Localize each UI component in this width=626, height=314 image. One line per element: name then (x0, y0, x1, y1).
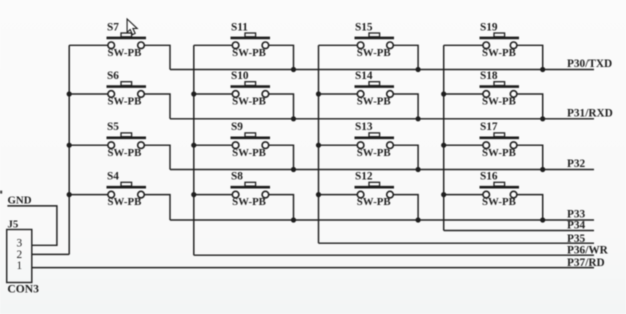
wire S5 right terminal to net line (144, 145, 170, 169)
junction column bus 2 / row 2 (191, 91, 196, 96)
wire S16 left terminal to column bus (444, 194, 483, 196)
svg-text:P37/RD: P37/RD (567, 257, 605, 269)
junction column bus 4 / row 4 (441, 192, 446, 197)
push-button S16 (SW-PB) (480, 171, 520, 209)
svg-text:J5: J5 (8, 218, 19, 230)
push-button S13 (SW-PB) (355, 121, 395, 159)
wire S9 right terminal to net line (269, 145, 294, 169)
junction column bus 2 / row 4 (191, 192, 196, 197)
push-button S15 (SW-PB) (355, 21, 395, 59)
svg-text:P34: P34 (567, 220, 586, 232)
svg-text:SW-PB: SW-PB (482, 147, 516, 159)
junction P32 / column 3 drop (416, 167, 421, 172)
junction column bus 3 / row 2 (316, 91, 321, 96)
push-button S5 (SW-PB) (107, 121, 147, 159)
svg-text:S7: S7 (107, 21, 119, 33)
push-button S14 (SW-PB) (355, 70, 395, 108)
connector J5 body (CON3) (7, 230, 32, 283)
junction column bus 3 / row 3 (316, 143, 321, 148)
wire S13 right terminal to net line (393, 145, 418, 169)
wire S7 left terminal to column bus (69, 44, 108, 46)
svg-text:SW-PB: SW-PB (357, 96, 391, 108)
wire S8 right terminal to net line (269, 195, 294, 220)
push-button S10 (SW-PB) (231, 70, 271, 108)
wire S15 left terminal to column bus (319, 44, 358, 46)
node P34 net line (444, 230, 594, 232)
wire S6 right terminal to net line (144, 94, 170, 119)
svg-text:SW-PB: SW-PB (357, 196, 391, 208)
junction P31/RXD / column 2 drop (291, 116, 296, 121)
junction column bus 4 / row 3 (441, 143, 446, 148)
svg-text:SW-PB: SW-PB (357, 47, 391, 59)
svg-text:P36/WR: P36/WR (567, 245, 609, 257)
push-button S12 (SW-PB) (355, 171, 395, 209)
svg-text:S6: S6 (107, 70, 119, 82)
svg-text:S11: S11 (231, 21, 248, 33)
push-button S7 (SW-PB) (107, 21, 147, 59)
svg-text:SW-PB: SW-PB (108, 47, 142, 59)
svg-text:S5: S5 (107, 121, 119, 133)
junction column bus 4 / row 2 (441, 91, 446, 96)
junction P33 / column 4 drop (540, 217, 545, 222)
svg-text:2: 2 (17, 249, 23, 261)
svg-text:S10: S10 (231, 70, 249, 82)
junction column bus 1 / row 3 (67, 143, 72, 148)
wire S11 left terminal to column bus (194, 44, 233, 46)
clipped mark at left edge (0, 191, 2, 194)
wire S4 left terminal to column bus (69, 194, 108, 196)
svg-text:CON3: CON3 (7, 282, 39, 295)
svg-text:P35: P35 (567, 233, 586, 245)
svg-text:SW-PB: SW-PB (232, 147, 266, 159)
wire S11 right terminal to net line (269, 45, 294, 69)
wire S6 left terminal to column bus (69, 93, 108, 95)
wire S17 right terminal to net line (517, 145, 543, 169)
svg-text:1: 1 (17, 260, 23, 272)
junction P33 / column 3 drop (416, 217, 421, 222)
svg-text:S12: S12 (355, 171, 373, 183)
push-button S9 (SW-PB) (231, 121, 271, 159)
wire S14 left terminal to column bus (319, 93, 358, 95)
node P37/RD net line from J5 pin 1 (32, 267, 594, 269)
svg-text:3: 3 (17, 238, 23, 250)
svg-text:GND: GND (8, 194, 32, 206)
wire GND to J5 pin 3 (7, 206, 57, 245)
junction P32 / column 4 drop (540, 167, 545, 172)
push-button S19 (SW-PB) (480, 21, 520, 59)
junction P31/RXD / column 4 drop (540, 116, 545, 121)
svg-text:S17: S17 (480, 121, 498, 133)
svg-text:S18: S18 (480, 70, 498, 82)
wire S19 left terminal to column bus (444, 44, 483, 46)
svg-text:S9: S9 (231, 121, 243, 133)
wire column bus 4 vertical (443, 45, 445, 230)
node P30/TXD net line (170, 69, 594, 71)
junction P32 / column 2 drop (291, 167, 296, 172)
wire S10 left terminal to column bus (194, 93, 233, 95)
svg-text:SW-PB: SW-PB (482, 47, 516, 59)
push-button S8 (SW-PB) (231, 171, 271, 209)
junction column bus 3 / row 4 (316, 192, 321, 197)
push-button S17 (SW-PB) (480, 121, 520, 159)
wire S16 right terminal to net line (517, 195, 543, 220)
wire S15 right terminal to net line (393, 45, 418, 69)
wire J5 pin 2 to column bus 1 (32, 253, 69, 255)
svg-text:SW-PB: SW-PB (108, 196, 142, 208)
push-button S11 (SW-PB) (231, 21, 271, 59)
svg-text:SW-PB: SW-PB (232, 196, 266, 208)
svg-text:SW-PB: SW-PB (108, 96, 142, 108)
wire S18 right terminal to net line (517, 94, 543, 119)
junction P30/TXD / column 4 drop (540, 67, 545, 72)
junction column bus 1 / row 4 (67, 192, 72, 197)
wire S8 left terminal to column bus (194, 194, 233, 196)
wire S7 right terminal to net line (144, 45, 170, 69)
svg-text:S13: S13 (355, 121, 373, 133)
wire S12 left terminal to column bus (319, 194, 358, 196)
svg-text:S16: S16 (480, 171, 498, 183)
junction P30/TXD / column 2 drop (291, 67, 296, 72)
wire S19 right terminal to net line (517, 45, 543, 69)
svg-text:SW-PB: SW-PB (232, 47, 266, 59)
wire column bus 2 vertical (193, 45, 195, 255)
junction P31/RXD / column 3 drop (416, 116, 421, 121)
wire S12 right terminal to net line (393, 195, 418, 220)
junction column bus 1 / row 2 (67, 91, 72, 96)
svg-text:SW-PB: SW-PB (108, 147, 142, 159)
svg-text:P31/RXD: P31/RXD (567, 108, 613, 120)
wire S18 left terminal to column bus (444, 93, 483, 95)
junction column bus 2 / row 3 (191, 143, 196, 148)
junction P33 / column 2 drop (291, 217, 296, 222)
wire S13 left terminal to column bus (319, 144, 358, 146)
svg-text:SW-PB: SW-PB (482, 96, 516, 108)
push-button S18 (SW-PB) (480, 70, 520, 108)
mouse cursor (127, 19, 137, 35)
svg-text:S14: S14 (355, 70, 373, 82)
node P32 net line (170, 169, 594, 171)
svg-text:S15: S15 (355, 21, 373, 33)
wire S14 right terminal to net line (393, 94, 418, 119)
node P33 net line (170, 219, 594, 221)
svg-text:S8: S8 (231, 171, 243, 183)
junction P30/TXD / column 3 drop (416, 67, 421, 72)
wire S17 left terminal to column bus (444, 144, 483, 146)
wire S5 left terminal to column bus (69, 144, 108, 146)
svg-text:SW-PB: SW-PB (232, 96, 266, 108)
wire column bus 1 vertical (68, 45, 70, 254)
svg-text:P30/TXD: P30/TXD (567, 58, 612, 70)
push-button S6 (SW-PB) (107, 70, 147, 108)
svg-text:SW-PB: SW-PB (357, 147, 391, 159)
svg-text:S4: S4 (107, 171, 119, 183)
wire column bus 3 vertical (318, 45, 320, 243)
wire S4 right terminal to net line (144, 195, 170, 220)
push-button S4 (SW-PB) (107, 171, 147, 209)
node P35 net line (319, 242, 595, 244)
node P31/RXD net line (170, 118, 594, 120)
node P36/WR net line (194, 254, 594, 256)
wire S9 left terminal to column bus (194, 144, 233, 146)
svg-text:S19: S19 (480, 21, 498, 33)
svg-text:P32: P32 (567, 158, 586, 170)
svg-text:SW-PB: SW-PB (482, 196, 516, 208)
wire S10 right terminal to net line (269, 94, 294, 119)
